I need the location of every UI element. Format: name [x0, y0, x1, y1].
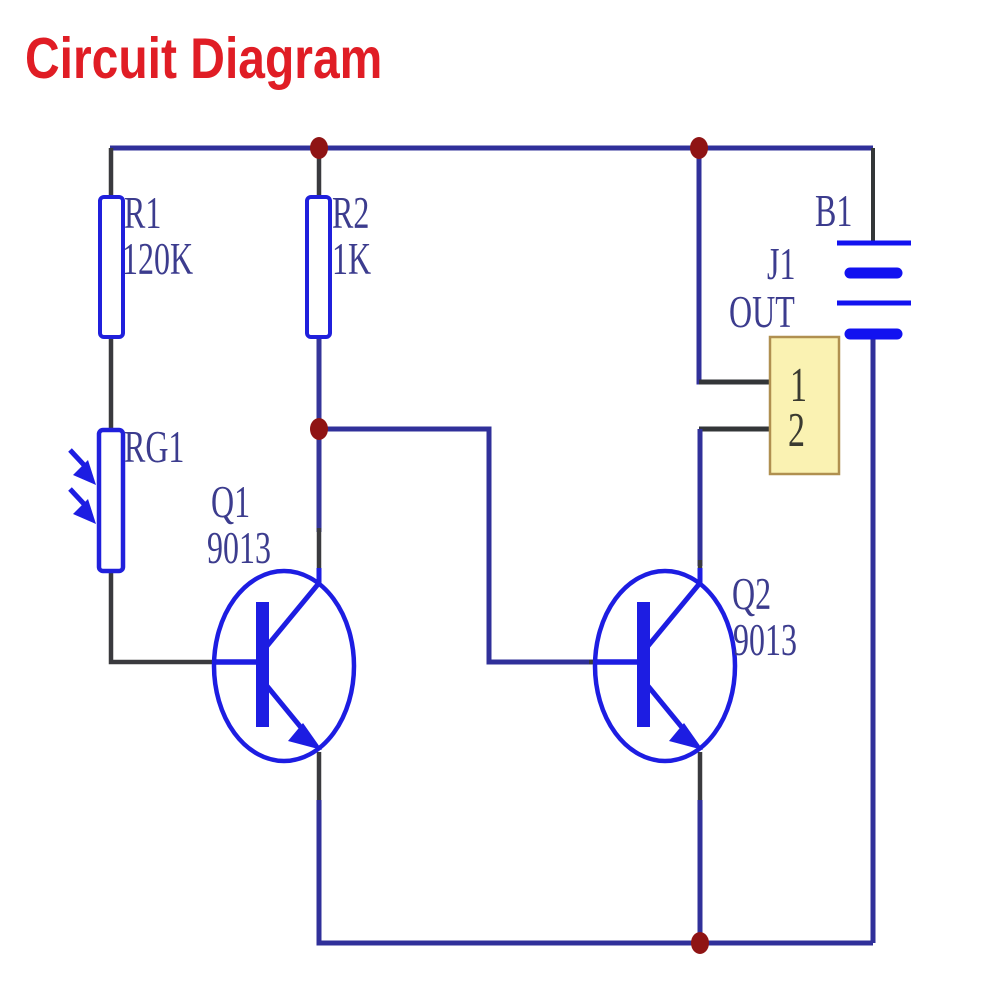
node dot top-right junction: [690, 137, 708, 159]
svg-text:RG1: RG1: [124, 423, 184, 473]
RG1 light arrow lower: [70, 489, 96, 524]
wire node to Q1 collector: [317, 429, 322, 532]
resistor R1: [100, 197, 123, 337]
svg-text:Circuit Diagram: Circuit Diagram: [25, 27, 382, 91]
svg-text:Q1: Q1: [211, 478, 250, 528]
wire R2 bottom to node dot: [317, 336, 322, 429]
wire R2 top stub: [317, 148, 322, 198]
node dot top-left junction: [310, 137, 328, 159]
wire bottom rail: [319, 800, 873, 943]
svg-text:120K: 120K: [122, 235, 193, 285]
transistor Q2: [594, 568, 735, 761]
wire node across to mid column: [319, 429, 593, 662]
wire Q1 emitter down: [317, 752, 322, 943]
wire J1 pin2 black: [699, 427, 770, 432]
wire pin2 down to Q2 collector: [698, 429, 703, 566]
svg-text:R2: R2: [332, 189, 369, 239]
svg-text:Q2: Q2: [732, 570, 771, 620]
wire Q2 emitter lower navy: [698, 800, 703, 943]
resistor R2: [307, 197, 330, 337]
svg-text:2: 2: [788, 404, 805, 457]
wire battery bottom to bottom rail: [871, 334, 876, 943]
wire Q2 base stub: [589, 660, 636, 665]
wire J1 pin1 black: [699, 380, 770, 385]
photoresistor RG1: [99, 430, 123, 571]
wire top rail: [110, 146, 873, 151]
svg-text:B1: B1: [815, 187, 852, 237]
wire R1 bottom to RG1 top: [109, 336, 114, 430]
svg-text:J1: J1: [767, 240, 795, 290]
battery B1: [837, 243, 911, 334]
svg-text:1K: 1K: [332, 235, 371, 285]
wire junction column down to J1 pin1: [699, 148, 768, 382]
connector J1: [770, 337, 839, 474]
svg-text:9013: 9013: [207, 524, 271, 574]
node dot R2/Q1 collector junction: [310, 418, 328, 440]
wire left drop to R1 top: [109, 148, 114, 198]
wire right drop to battery: [871, 148, 875, 243]
svg-text:R1: R1: [124, 189, 161, 239]
RG1 light arrow upper: [70, 450, 96, 485]
svg-text:9013: 9013: [733, 616, 797, 666]
wire Q2 collector stub: [698, 560, 703, 584]
wire Q2 emitter down: [698, 752, 703, 943]
svg-text:OUT: OUT: [729, 288, 795, 338]
node dot bottom junction: [691, 932, 709, 954]
wire RG1 bottom to Q1 base corner: [111, 572, 214, 662]
transistor Q1: [213, 568, 354, 761]
